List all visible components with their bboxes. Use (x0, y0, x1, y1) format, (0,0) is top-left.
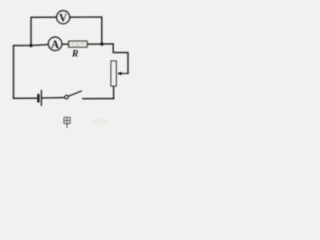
battery B1 long thin plate (positive) (40, 91, 42, 106)
wire: middle row left of ammeter (14, 45, 49, 46)
wire: left vertical side (13, 46, 15, 99)
resistor R body (69, 41, 88, 47)
battery B1 short thick plate (negative) (37, 95, 40, 101)
wire: switch to bottom right (83, 98, 114, 100)
label 甲 (figure caption, drawn as strokes) (64, 117, 70, 128)
wire: rheostat bottom lead (113, 86, 115, 99)
rheostat slider arrow shaft (120, 73, 128, 75)
wire: bottom left horizontal to battery (14, 97, 38, 99)
node: junction of voltmeter branch left (29, 44, 32, 47)
paper background (0, 0, 134, 133)
switch S1 pivot circle (65, 95, 69, 99)
ammeter A1 circle (48, 37, 62, 51)
wire: voltmeter to right corner, down to junction (70, 17, 102, 43)
svg-text:R: R (71, 50, 78, 60)
node: junction of voltmeter and resistor branch (100, 42, 103, 45)
wire: resistor right lead (87, 43, 102, 45)
wire: right side down to slider (102, 44, 128, 74)
wire: battery to switch (43, 97, 65, 99)
resistor body speckle (72, 43, 84, 46)
svg-text:A: A (51, 39, 59, 51)
rheostat R2 body (111, 61, 116, 86)
wire: ammeter to resistor (62, 43, 69, 45)
switch S1 lever (open) (68, 91, 81, 96)
svg-text:V: V (59, 12, 67, 24)
wire: voltmeter branch riser (31, 17, 56, 45)
voltmeter U1 circle (57, 11, 70, 24)
faint scan smudge right of label (93, 117, 107, 125)
rheostat slider arrowhead (117, 72, 122, 75)
